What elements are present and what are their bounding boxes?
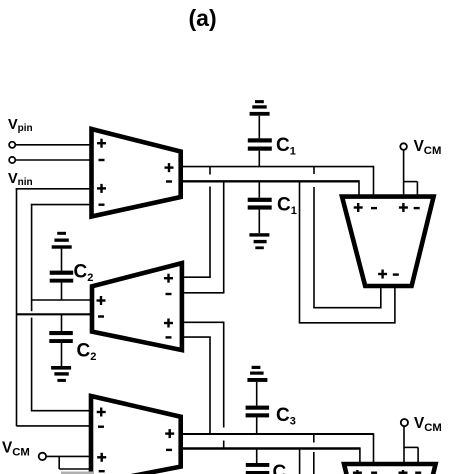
wire left feedback vertical x31 lower (hop over crossing) xyxy=(31,318,33,412)
capacitor C3 upper xyxy=(246,406,270,418)
op-amp U2 (points left) xyxy=(92,263,182,350)
wire Vpin to U1 in1 xyxy=(15,144,91,146)
wire U2 in3 xyxy=(184,321,225,323)
wire U3 out+ (net W3a) xyxy=(183,433,374,435)
terminal Vpin xyxy=(9,142,15,148)
terminal Vnin xyxy=(9,157,15,163)
terminal VCM left xyxy=(39,453,46,460)
op-amp U4 (points down) xyxy=(342,197,434,286)
capacitor C3 lower (partial) xyxy=(246,463,269,474)
wire W2 down into U4 xyxy=(358,180,360,196)
wire to U2 out+ xyxy=(32,299,92,301)
ground below C2 lower xyxy=(51,366,71,382)
wire U4 out2 stub xyxy=(394,288,396,324)
capacitor C2 lower xyxy=(49,331,73,343)
U5 pin labels (partial) xyxy=(353,470,421,474)
terminal VCM top xyxy=(400,143,407,150)
wire W3b drop at x299 (runs off image) xyxy=(299,449,301,474)
wire VCM branch xyxy=(404,181,418,183)
wire VCM left to U3 in3 xyxy=(46,455,91,457)
wire to U2 out- xyxy=(17,313,93,315)
wire Vnin to U1 in2 xyxy=(15,159,91,161)
wire outer U bottom xyxy=(299,322,395,324)
shading artifact under U3 xyxy=(61,472,94,474)
wire ground to C3 xyxy=(256,382,258,406)
wire VCM bottom to U5 xyxy=(403,426,405,464)
wire W2 to C1 lower xyxy=(258,181,260,197)
capacitor C1 lower xyxy=(248,198,272,210)
wire C1 lower to ground xyxy=(258,210,260,234)
wire U3 out- (net W3b) xyxy=(183,447,360,449)
U3 pin labels xyxy=(97,408,175,473)
wire VCM branch down xyxy=(58,456,60,469)
ground above C2 upper xyxy=(52,232,72,249)
wire node FB1 to U1 in3 xyxy=(16,188,92,190)
wire W3b down into U5 xyxy=(359,447,361,464)
wire W3a drop at x313 (hop over W3b, runs off image) xyxy=(313,434,315,443)
wire C2 upper to node xyxy=(61,282,63,300)
wire C2 lower to ground xyxy=(61,343,63,366)
op-amp U1 xyxy=(92,129,181,217)
wire U2 in2 xyxy=(184,292,225,294)
wire W3b to C3 lower xyxy=(256,449,258,464)
terminal VCM bottom right xyxy=(401,419,408,426)
wire C3 to W3a xyxy=(256,417,258,434)
wire W1 drop at x314 (hop over W2) to inner U xyxy=(313,167,315,174)
wire C1 upper to W1 xyxy=(258,151,260,167)
wire U1 out+ (net W1) xyxy=(183,166,374,168)
ground above C3 xyxy=(247,366,267,382)
wire node to C2 lower xyxy=(61,314,63,331)
ground above C1 upper xyxy=(250,100,270,116)
wire VCM branch to U3 in4 xyxy=(59,468,91,470)
wire left feedback vertical x16 xyxy=(16,188,18,426)
capacitor C1 upper xyxy=(248,138,272,150)
wire U2 in4 drop to W3a at x210 xyxy=(209,337,211,434)
op-amp U3 xyxy=(91,396,181,474)
wire to U3 in2 xyxy=(17,425,92,427)
wire U2 in1 xyxy=(184,276,211,278)
wire W2 drop to U2 in2 at x224 xyxy=(223,181,225,292)
wire node FB2 to U1 in4 xyxy=(31,204,92,206)
U2 pin labels xyxy=(97,274,174,339)
op-amp U5 (points down, partial) xyxy=(344,464,436,474)
U1 pin labels xyxy=(97,139,174,206)
U4 pin labels xyxy=(354,203,420,279)
wire W2 drop at x299 to outer U xyxy=(299,181,301,322)
wire U1 out- (net W2) xyxy=(183,180,359,182)
wire W3a down into U5 xyxy=(373,433,375,464)
wire left feedback vertical x31 upper xyxy=(31,204,33,311)
wire ground to C2 upper xyxy=(61,249,63,271)
capacitor C2 upper xyxy=(50,271,73,283)
wire inner U bottom xyxy=(313,307,381,309)
wire to U3 in1 xyxy=(32,410,92,412)
wire W1 drop to U2 in1 at x210 xyxy=(209,167,211,175)
wire VCM top to U4 xyxy=(403,150,405,197)
wire ground to C1 upper xyxy=(258,116,260,139)
wire U2 in3 drop to W3b at x224 (hop at W3a) xyxy=(223,322,225,427)
wire U2 in4 xyxy=(184,336,211,338)
wire W1 down into U4 xyxy=(373,166,375,197)
ground below C1 lower xyxy=(249,233,269,249)
wire VCM bottom branch xyxy=(404,446,418,448)
svg-text:(a): (a) xyxy=(189,5,217,31)
wire U4 out1 stub xyxy=(380,288,382,309)
